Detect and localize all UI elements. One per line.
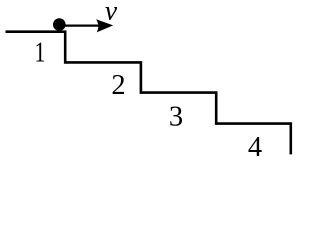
velocity arrowhead <box>96 19 113 32</box>
staircase outline: step surfaces 1-4 and risers <box>6 32 291 155</box>
svg-text:3: 3 <box>169 101 183 132</box>
velocity arrow shaft <box>59 25 101 27</box>
svg-text:1: 1 <box>34 36 45 68</box>
svg-text:v: v <box>105 0 118 26</box>
svg-text:2: 2 <box>111 70 125 101</box>
svg-text:4: 4 <box>248 132 262 162</box>
ball on step 1 <box>53 18 66 31</box>
